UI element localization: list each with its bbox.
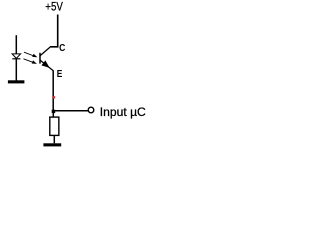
optocoupler LED D1 (triangle + cathode bar) xyxy=(12,54,21,59)
wire stub above LED anode xyxy=(15,35,17,53)
wire +5V rail to collector xyxy=(51,15,58,47)
pin label E xyxy=(57,69,63,80)
ground (LED branch) xyxy=(8,80,25,83)
pin label C xyxy=(59,43,65,54)
output terminal circle xyxy=(88,107,94,113)
ground (resistor branch) xyxy=(43,143,61,146)
red node marker on emitter wire xyxy=(53,96,55,98)
junction node dot xyxy=(52,110,56,113)
wire junction to output terminal xyxy=(55,110,88,112)
svg-text:Input µC: Input µC xyxy=(100,105,146,119)
wire emitter to output node xyxy=(52,70,54,111)
wire resistor to ground xyxy=(53,136,55,144)
phototransistor Q1 emitter diagonal with arrow xyxy=(40,60,53,70)
svg-text:C: C xyxy=(59,43,65,54)
svg-text:+5V: +5V xyxy=(45,0,63,14)
resistor R1 xyxy=(50,117,59,135)
net label +5V xyxy=(45,0,63,14)
label Input µC xyxy=(100,105,146,119)
svg-text:E: E xyxy=(57,69,63,80)
wire LED cathode to ground xyxy=(15,59,17,81)
phototransistor Q1 collector diagonal xyxy=(40,46,51,55)
wire junction to resistor xyxy=(52,112,54,117)
phototransistor Q1 base bar xyxy=(39,53,41,64)
optocoupler light arrows xyxy=(24,52,38,64)
